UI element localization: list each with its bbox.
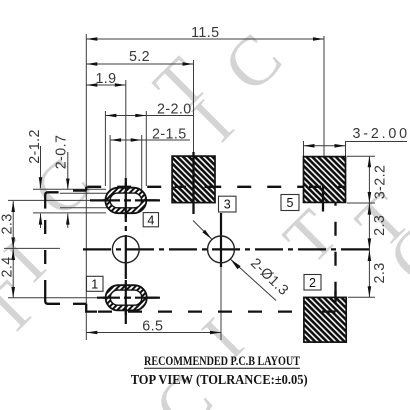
- dim line 5.2: [86, 63, 193, 65]
- thick dashed component outline: [45, 187, 335, 312]
- ext lines 2-2.0: [104, 111, 106, 186]
- svg-text:2.4: 2.4: [0, 256, 15, 277]
- svg-text:2-1.5: 2-1.5: [152, 127, 187, 143]
- dim line 1.9: [86, 84, 126, 86]
- ext lines 2-1.5: [109, 135, 111, 190]
- dim line 11.5: [86, 38, 324, 40]
- arrows dim 2-1.5: [110, 138, 121, 142]
- arrows dim 11.5: [86, 37, 97, 41]
- left chain dim line x=13.2: [12, 201, 14, 298]
- svg-text:2-2.0: 2-2.0: [157, 102, 192, 118]
- arrows dim 1.9: [86, 83, 97, 87]
- pad3 center tick: [192, 152, 194, 214]
- svg-text:2.3: 2.3: [372, 262, 388, 283]
- left edge dashed: [44, 218, 46, 288]
- svg-text:RECOMMENDED P.C.B LAYOUT: RECOMMENDED P.C.B LAYOUT: [144, 354, 300, 368]
- arrows right chain 3-2.2/2.3/2.3: [368, 156, 372, 167]
- right chain dim line x=369.4: [368, 156, 370, 297]
- center lines: [83, 178, 371, 324]
- ext line circle2 x=221: [220, 264, 222, 341]
- outline dashes over pad5: [303, 186, 346, 188]
- label boxes: [87, 195, 322, 292]
- svg-text:1: 1: [91, 277, 98, 291]
- ext line oval1 center y=297.7: [8, 297, 100, 299]
- main horizontal centerline: [83, 248, 371, 250]
- svg-text:3: 3: [224, 198, 231, 212]
- dim line 6.5: [86, 332, 221, 334]
- arrowheads: [11, 37, 371, 334]
- right edge dashed: [334, 187, 336, 312]
- leader 2-d1.3 top: [193, 221, 212, 240]
- ext line right x=324: [323, 36, 325, 190]
- hole circle 2: [208, 236, 235, 263]
- outline dashes over pad3: [172, 186, 216, 188]
- bottom edge dashed: [97, 310, 336, 312]
- outline bottom edge through pad2: [322, 310, 336, 312]
- arrows dim 3-2.00: [304, 144, 315, 148]
- svg-text:4: 4: [147, 213, 154, 227]
- bottom-left edge dash: [73, 303, 86, 305]
- arrows dim 2-1.2: [39, 177, 43, 188]
- ext centerline left y=248.4: [4, 247, 60, 249]
- vertical centerline ovals x=125.8: [125, 178, 127, 324]
- outline right edge through pad2: [334, 291, 336, 312]
- oval1 horizontal centerline: [97, 297, 160, 299]
- pad5 center tick: [322, 186, 324, 212]
- svg-text:2.3: 2.3: [372, 215, 388, 236]
- svg-text:11.5: 11.5: [191, 25, 219, 41]
- svg-text:C: C: [209, 19, 296, 106]
- svg-text:5: 5: [287, 196, 294, 210]
- svg-text:1.9: 1.9: [95, 71, 116, 87]
- oval4 ext lines to left dims: [33, 188, 106, 190]
- crosshair re-draw over ovals: [103, 183, 160, 315]
- svg-text:6.5: 6.5: [142, 319, 163, 335]
- right ext lines: [347, 155, 375, 157]
- bottom captions: [131, 354, 308, 388]
- hole circle 1: [112, 236, 139, 263]
- ext line oval center x=125.8: [125, 80, 127, 178]
- svg-text:2-0.7: 2-0.7: [54, 135, 70, 170]
- ext line pad3 center x=193.5: [193, 60, 195, 153]
- bottom-left corner piece: [45, 288, 60, 304]
- oval pad 4: [105, 188, 146, 214]
- dimension texts: [0, 25, 408, 335]
- arrows dim 2-0.7: [66, 179, 70, 190]
- svg-text:TOP VIEW (TOLRANCE:±0.05): TOP VIEW (TOLRANCE:±0.05): [131, 372, 308, 388]
- svg-text:2-Ø1.3: 2-Ø1.3: [247, 255, 291, 299]
- top edge dashed: [86, 186, 335, 188]
- arrows dim 5.2: [86, 62, 97, 66]
- ext line left x=86.3: [85, 34, 87, 340]
- oval pad 1: [106, 285, 147, 310]
- arrows dim 2-2.0: [105, 114, 116, 118]
- dim line 3-2.00: [304, 145, 346, 147]
- oval4 horizontal centerline: [90, 199, 163, 201]
- step down: [86, 304, 97, 312]
- vertical centerline circle2 x=221: [220, 213, 222, 267]
- overlay thick lines over pads: [172, 152, 346, 312]
- pad 2: [304, 297, 346, 342]
- ext lines 3-2.00: [303, 141, 305, 156]
- svg-text:2.3: 2.3: [0, 213, 16, 234]
- svg-text:3-2.00: 3-2.00: [353, 126, 408, 142]
- dim line 2-1.5: [110, 139, 190, 141]
- arrows dim 6.5: [86, 331, 97, 335]
- arrows left chain 2.3/2.4: [11, 201, 15, 212]
- dim line 2-1.2 vertical: [40, 146, 42, 188]
- thin extension / dimension lines: [4, 34, 407, 340]
- top edge step: [73, 189, 86, 191]
- top-left corner piece: [45, 192, 58, 208]
- svg-text:3-2.2: 3-2.2: [373, 165, 389, 200]
- pad 3: [172, 156, 215, 203]
- dim line 2-0.7 vertical: [67, 152, 69, 190]
- svg-text:5.2: 5.2: [129, 49, 150, 65]
- leader 2-d1.3 bottom: [231, 259, 277, 300]
- arrows leader 2-dia1.3: [202, 230, 211, 239]
- pad 5: [304, 157, 346, 203]
- ext line oval4 center y=200.4: [8, 199, 96, 201]
- dim line 2-2.0: [105, 115, 193, 117]
- svg-text:2-1.2: 2-1.2: [27, 129, 43, 164]
- svg-text:2: 2: [309, 276, 316, 290]
